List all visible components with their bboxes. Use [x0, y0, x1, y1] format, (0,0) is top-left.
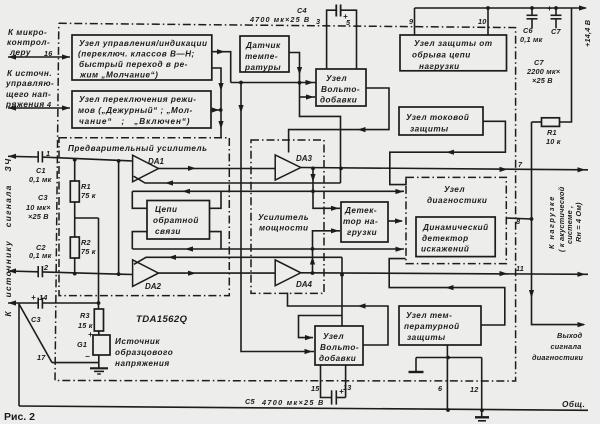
svg-text:Вольто-: Вольто- — [321, 85, 360, 94]
svg-text:+14,4 В: +14,4 В — [583, 20, 592, 47]
svg-text:+: + — [547, 4, 552, 13]
svg-text:леру: леру — [9, 48, 31, 57]
svg-text:8: 8 — [516, 217, 521, 226]
svg-text:Rн = 4 Ом): Rн = 4 Ом) — [574, 202, 583, 242]
svg-text:Предварительный усилитель: Предварительный усилитель — [68, 144, 207, 153]
svg-text:12: 12 — [470, 385, 479, 394]
svg-text:DA2: DA2 — [145, 282, 162, 291]
svg-text:ряжения: ряжения — [5, 100, 45, 109]
svg-text:2: 2 — [43, 263, 48, 272]
svg-text:+: + — [31, 293, 36, 302]
svg-text:Узел переключения режи-: Узел переключения режи- — [79, 95, 197, 104]
svg-text:R2: R2 — [81, 238, 91, 247]
svg-text:−: − — [85, 352, 90, 361]
svg-text:управляю-: управляю- — [5, 79, 54, 88]
svg-text:Узел токовой: Узел токовой — [406, 113, 469, 122]
svg-text:2200 мк×: 2200 мк× — [526, 67, 561, 76]
svg-text:С4: С4 — [297, 6, 307, 15]
svg-text:С3: С3 — [38, 193, 48, 202]
svg-text:×25 В: ×25 В — [532, 76, 553, 85]
svg-text:Узел тем-: Узел тем- — [406, 311, 452, 320]
svg-text:4700 мк×25 В: 4700 мк×25 В — [261, 398, 325, 407]
svg-text:образцового: образцового — [115, 347, 173, 357]
svg-text:Узел управления/индикации: Узел управления/индикации — [79, 39, 208, 48]
svg-text:С7: С7 — [534, 58, 544, 67]
svg-text:С6: С6 — [523, 26, 533, 35]
svg-text:Усилитель: Усилитель — [258, 213, 309, 222]
svg-text:10 к: 10 к — [546, 137, 561, 146]
svg-text:чание“ ; „Включен“): чание“ ; „Включен“) — [79, 117, 190, 126]
svg-text:Вольто-: Вольто- — [320, 343, 359, 352]
svg-text:1: 1 — [46, 149, 50, 158]
svg-text:TDA1562Q: TDA1562Q — [136, 314, 188, 325]
svg-text:добавки: добавки — [320, 95, 357, 105]
svg-text:6: 6 — [438, 384, 443, 393]
svg-text:обрыва цепи: обрыва цепи — [412, 50, 471, 60]
svg-text:контрол-: контрол- — [7, 38, 50, 47]
svg-text:75 к: 75 к — [81, 191, 96, 200]
svg-text:DA1: DA1 — [148, 157, 165, 166]
svg-text:Узел: Узел — [323, 332, 344, 341]
svg-text:+: + — [88, 330, 93, 339]
svg-text:0,1 мк: 0,1 мк — [29, 251, 52, 260]
svg-text:Выход: Выход — [557, 331, 583, 340]
svg-text:R1: R1 — [81, 182, 91, 191]
svg-text:G1: G1 — [77, 340, 87, 349]
svg-text:С1: С1 — [36, 166, 46, 175]
svg-text:тор на-: тор на- — [343, 217, 378, 226]
svg-text:0,1 мк: 0,1 мк — [520, 35, 543, 44]
svg-text:темпе-: темпе- — [245, 52, 278, 61]
svg-text:ратуры: ратуры — [244, 63, 281, 72]
svg-text:нагрузки: нагрузки — [419, 62, 460, 71]
svg-text:системе ,: системе , — [565, 206, 574, 244]
svg-text:Детек-: Детек- — [344, 206, 377, 215]
svg-text:16: 16 — [44, 49, 53, 58]
svg-text:17: 17 — [37, 353, 46, 362]
svg-text:быстрый переход в ре-: быстрый переход в ре- — [79, 59, 188, 69]
svg-text:×25 В: ×25 В — [28, 212, 49, 221]
svg-text:диагностики: диагностики — [427, 196, 487, 205]
svg-text:щего нап-: щего нап- — [6, 90, 51, 99]
svg-text:4700 мк×25 В: 4700 мк×25 В — [249, 15, 310, 24]
svg-text:R1: R1 — [547, 128, 557, 137]
svg-text:75 к: 75 к — [81, 247, 96, 256]
svg-text:Общ.: Общ. — [562, 399, 585, 409]
svg-text:сигнала: сигнала — [551, 342, 582, 351]
svg-text:защиты: защиты — [407, 333, 446, 342]
svg-text:детектор: детектор — [422, 234, 469, 243]
svg-text:С3: С3 — [31, 315, 41, 324]
svg-text:15: 15 — [311, 384, 320, 393]
svg-text:11: 11 — [516, 264, 524, 273]
svg-text:Рис. 2: Рис. 2 — [4, 411, 35, 423]
svg-text:диагностики: диагностики — [532, 353, 583, 362]
svg-text:0,1 мк: 0,1 мк — [29, 175, 52, 184]
svg-text:связи: связи — [155, 227, 181, 236]
svg-text:обратной: обратной — [153, 215, 199, 225]
svg-text:мощности: мощности — [259, 224, 309, 233]
svg-text:9: 9 — [409, 17, 414, 26]
svg-text:С5: С5 — [245, 397, 255, 406]
svg-text:15 к: 15 к — [78, 321, 93, 330]
svg-text:10 мк×: 10 мк× — [26, 203, 51, 212]
svg-text:Цепи: Цепи — [155, 205, 178, 214]
svg-text:защиты: защиты — [410, 125, 449, 134]
svg-text:жим „Молчание“): жим „Молчание“) — [79, 71, 158, 80]
svg-text:Узел: Узел — [326, 74, 347, 83]
svg-text:К источнику сигнала ЗЧ: К источнику сигнала ЗЧ — [4, 158, 13, 317]
svg-text:14: 14 — [39, 293, 48, 302]
svg-text:Узел: Узел — [444, 185, 465, 194]
svg-text:К источн.: К источн. — [7, 69, 52, 78]
svg-text:мов („Дежурный“ ; „Мол-: мов („Дежурный“ ; „Мол- — [78, 106, 193, 115]
svg-text:напряжения: напряжения — [115, 359, 170, 368]
svg-text:4: 4 — [46, 100, 51, 109]
svg-text:Динамический: Динамический — [422, 223, 489, 232]
svg-text:(переключ. классов В—Н;: (переключ. классов В—Н; — [78, 50, 195, 59]
svg-text:7: 7 — [518, 160, 523, 169]
svg-text:К микро-: К микро- — [8, 28, 47, 37]
svg-text:грузки: грузки — [347, 228, 377, 237]
svg-text:С7: С7 — [551, 27, 561, 36]
svg-text:Датчик: Датчик — [245, 41, 281, 50]
svg-text:искажений: искажений — [421, 245, 469, 254]
svg-text:10: 10 — [478, 17, 487, 26]
svg-text:DA3: DA3 — [296, 154, 313, 163]
svg-text:Узел защиты от: Узел защиты от — [414, 39, 493, 48]
svg-text:3: 3 — [316, 17, 320, 26]
svg-text:13: 13 — [343, 383, 352, 392]
svg-text:пературной: пературной — [404, 322, 460, 331]
svg-text:DA4: DA4 — [296, 280, 313, 289]
svg-text:К нагрузке: К нагрузке — [547, 195, 556, 249]
svg-text:R3: R3 — [80, 311, 90, 320]
svg-text:Источник: Источник — [115, 337, 160, 346]
svg-text:+: + — [343, 12, 348, 21]
svg-text:+: + — [339, 387, 344, 396]
svg-text:добавки: добавки — [319, 353, 356, 363]
